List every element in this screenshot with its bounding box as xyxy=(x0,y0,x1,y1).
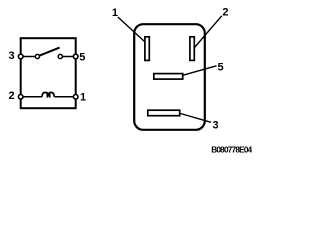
leader pin2 xyxy=(195,16,222,48)
svg-text:1: 1 xyxy=(80,91,86,103)
relay schematic box xyxy=(21,38,76,108)
wire terminal3 to contact xyxy=(23,56,36,58)
pin 5 slot xyxy=(154,74,183,80)
wire contact to terminal5 xyxy=(62,56,73,58)
pin 2 slot xyxy=(190,37,194,61)
leader pin1 xyxy=(118,17,145,42)
switch lever xyxy=(39,48,59,56)
terminal 2 circle xyxy=(18,95,23,100)
leader pin3 xyxy=(181,114,212,123)
svg-text:2: 2 xyxy=(8,90,14,102)
terminal 3 circle xyxy=(18,54,23,59)
pin 3 slot xyxy=(148,110,180,116)
terminal 5 circle xyxy=(73,54,78,59)
svg-text:2: 2 xyxy=(222,6,228,18)
wire coil to terminal1 xyxy=(54,96,73,98)
leader pin5 xyxy=(183,66,217,75)
switch contact right xyxy=(58,54,62,58)
switch contact left xyxy=(35,54,39,58)
wire terminal2 to coil xyxy=(23,96,42,98)
svg-text:5: 5 xyxy=(79,52,85,64)
svg-text:1: 1 xyxy=(112,7,118,19)
pin 1 slot xyxy=(145,37,149,61)
svg-text:3: 3 xyxy=(9,50,15,62)
svg-text:B080778E04: B080778E04 xyxy=(211,146,252,155)
terminal 1 circle xyxy=(73,95,78,100)
svg-text:3: 3 xyxy=(212,119,218,131)
relay connector body xyxy=(134,24,205,130)
svg-text:5: 5 xyxy=(217,62,223,74)
coil L xyxy=(42,92,54,96)
